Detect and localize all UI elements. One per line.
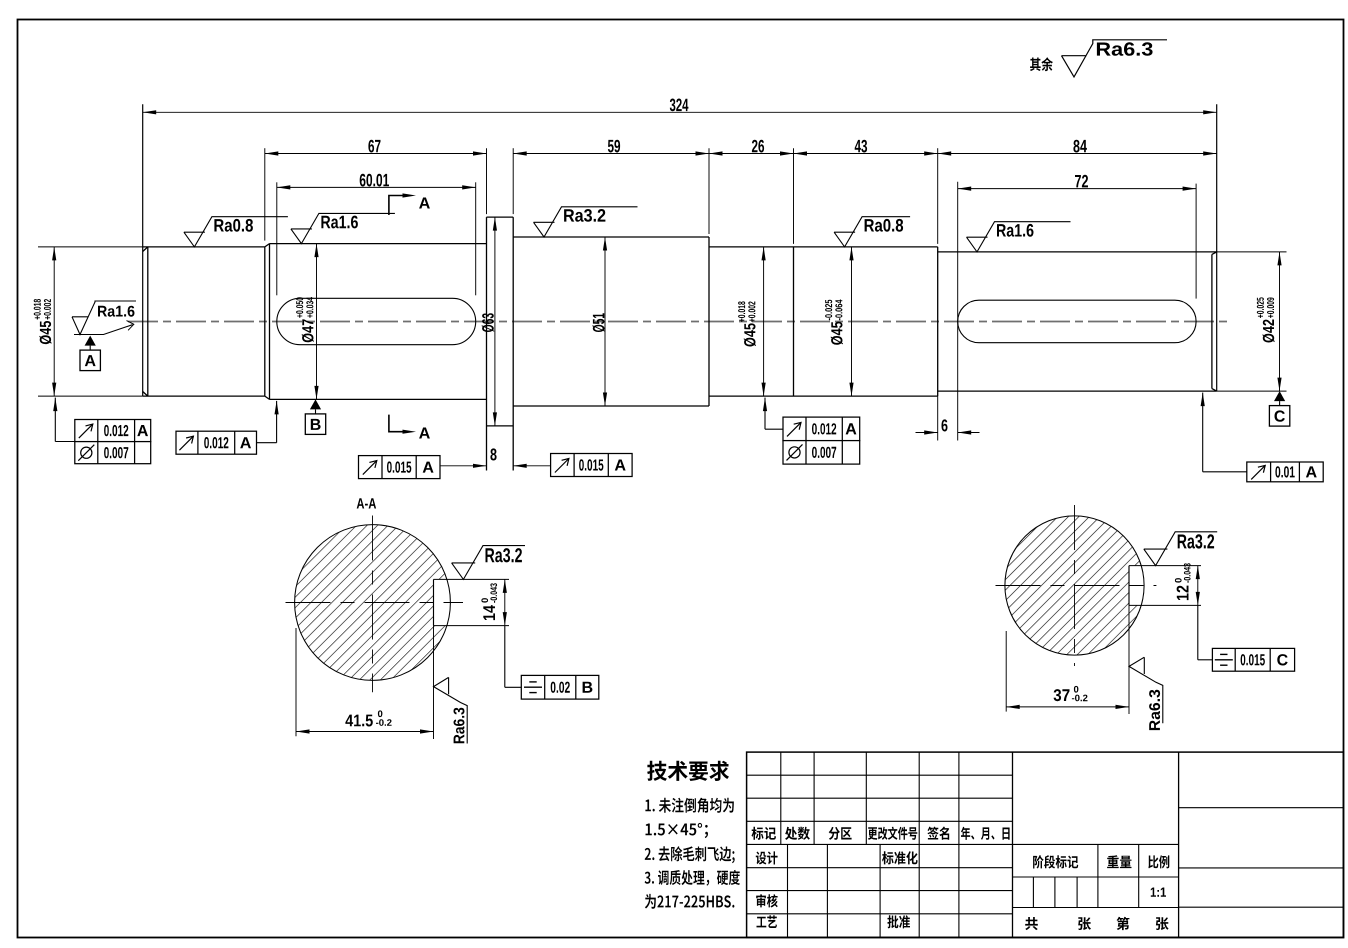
tolerance frame runout 0.015 A (left of collar) [359, 456, 441, 479]
keyway reference line through shaft at x=957.7 [957, 182, 959, 441]
keyway 2 outline (72 long) [958, 300, 1196, 343]
general roughness 其余 Ra6.3 (top right) [1030, 40, 1167, 77]
tolerance frame runout 0.01 A (right end) with leader [1201, 393, 1324, 482]
leader joining 8-dim to frames [440, 465, 448, 467]
tech note line 4 [645, 870, 740, 886]
dimension 84 [938, 140, 1217, 244]
shaft segment 7 (Ø42 with keyway) and right end chamfer [938, 104, 1217, 391]
dimension 43 [794, 140, 938, 244]
title block labels 阶段标记 重量 比例 [1033, 855, 1169, 868]
keyway 1 outline (60.01 long) [277, 298, 476, 344]
dimension 6 shoulder to keyway [916, 396, 980, 440]
section A-A label [357, 498, 376, 508]
dimension 60.01 keyway 1 [277, 174, 476, 296]
tolerance frame runout 0.012 A / cylindricity 0.007 (left) with leader [53, 398, 151, 464]
roughness Ra6.3 rotated on section A chord [434, 677, 468, 743]
roughness Ra6.3 rotated on section B chord [1129, 657, 1163, 730]
section mark A (top) [389, 193, 430, 215]
dimension 324 overall [143, 99, 1217, 115]
datum B symbol below Ø47 [305, 399, 325, 434]
title block labels 设计 标准化 [756, 851, 918, 864]
tech note line 1 [645, 798, 734, 813]
diameter Ø42 with tolerance +0.025/+0.009 and extension lines [1217, 252, 1287, 391]
roughness Ra1.6 on segment 2 [291, 213, 395, 243]
tolerance frame symmetry 0.015 C with leader [1198, 605, 1295, 671]
diameter Ø47 with tolerance +0.050/+0.034 [296, 244, 319, 400]
roughness Ra0.8 on segment 6 [834, 217, 910, 247]
tech note line 3 [645, 846, 735, 863]
section mark A (bottom) [389, 415, 430, 439]
section A-A keyway notch [434, 579, 510, 625]
groove line between the two Ø45 zones [793, 247, 795, 396]
title block grid [747, 752, 1344, 937]
roughness Ra3.2 on section A keyway [452, 546, 525, 580]
tolerance frame runout 0.012 A / cylindricity 0.007 (seg5) with leader [763, 398, 860, 465]
roughness Ra3.2 on section B keyway [1144, 532, 1217, 566]
roughness Ra1.6 on segment 7 [967, 222, 1071, 252]
scale value 1:1 [1151, 888, 1166, 897]
step shoulder seg4/seg5 [708, 237, 710, 406]
diameter Ø51 [592, 237, 607, 406]
shaft segment 2 (Ø47 with keyway) [270, 244, 487, 400]
step shoulder seg6/seg7 [937, 247, 939, 396]
tech note line 2 [646, 823, 709, 838]
dimension 67 [265, 140, 487, 241]
shaft segment 4 (Ø51) [513, 237, 709, 406]
tolerance frame runout 0.012 A (seg2) with leader [176, 401, 279, 454]
title block labels 审核 [756, 894, 778, 907]
title block labels 工艺 批准 [757, 915, 911, 928]
shaft segment 6 (Ø45 k) [794, 247, 938, 396]
diameter Ø63 collar [482, 217, 497, 426]
tech note line 5 [645, 894, 735, 909]
tolerance frame symmetry 0.02 B with leader [505, 626, 599, 700]
dimension 37 0/-0.2 [1006, 605, 1129, 714]
shaft segment 5 (Ø45 journal) [709, 247, 794, 396]
section B hatched circle [1005, 516, 1151, 655]
roughness Ra3.2 on segment 4 [534, 207, 638, 237]
section A-A hatched circle [295, 525, 458, 681]
dimension 14 0/-0.043 keyway width [481, 579, 507, 625]
roughness Ra1.6 with leader and datum A at left end [72, 301, 136, 335]
diameter Ø45 left with tolerance +0.018/+0.002 and extension lines [34, 247, 143, 396]
datum C symbol below Ø42 extension [1269, 391, 1289, 426]
dimension 8 collar width [440, 448, 551, 468]
diameter Ø45 (seg6) with tolerance -0.025/-0.064 [825, 247, 854, 396]
step shoulder seg1/seg2 with chamfer [265, 244, 270, 400]
dimension 72 keyway 2 [958, 175, 1196, 299]
section B centerlines [996, 505, 1157, 666]
title block labels row: 标记 处数 分区 更改文件号 签名 年、月、日 [752, 827, 1010, 840]
dimension 26 [709, 140, 794, 234]
section A-A centerlines [286, 516, 464, 693]
dimension 12 0/-0.043 keyway width [1175, 563, 1200, 605]
sheet count row 共 张 第 张 [1025, 917, 1168, 930]
shaft centerline [128, 321, 1231, 323]
technical requirements heading 技术要求 [647, 761, 729, 781]
tolerance frame runout 0.015 A (right of collar) [551, 454, 633, 477]
dimension 59 [487, 140, 710, 214]
datum A symbol [80, 336, 100, 371]
diameter Ø45 (seg5) with tolerance +0.018/+0.002 [738, 247, 766, 396]
section B keyway notch [1129, 566, 1201, 606]
dimension 41.5 0/-0.2 [296, 626, 434, 739]
collar Ø63 [487, 217, 514, 470]
shaft segment 1 (left journal Ø45) [143, 104, 265, 396]
roughness Ra0.8 on segment 1 [184, 217, 288, 247]
